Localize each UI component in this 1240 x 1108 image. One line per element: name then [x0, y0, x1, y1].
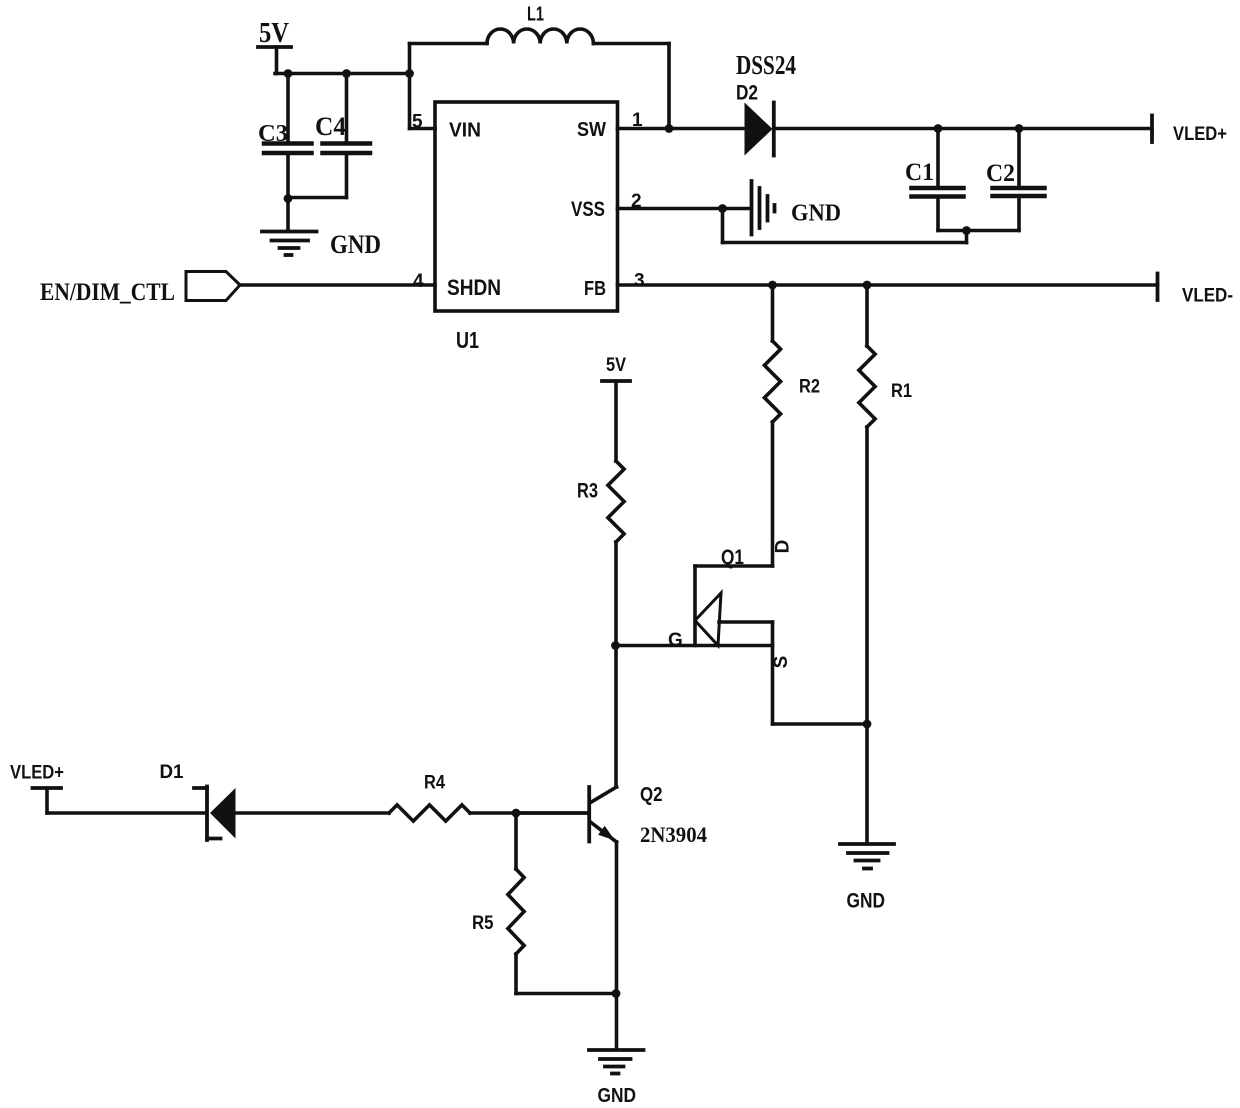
svg-text:GND: GND — [330, 230, 381, 259]
svg-text:D: D — [773, 540, 794, 554]
svg-text:C4: C4 — [315, 112, 346, 141]
svg-text:L1: L1 — [527, 4, 544, 26]
svg-text:3: 3 — [634, 271, 645, 292]
svg-text:SHDN: SHDN — [447, 275, 501, 300]
svg-text:D1: D1 — [160, 762, 184, 783]
svg-text:2N3904: 2N3904 — [640, 822, 707, 847]
svg-text:C2: C2 — [986, 160, 1015, 187]
svg-text:2: 2 — [631, 191, 642, 212]
svg-text:D2: D2 — [736, 82, 758, 105]
svg-text:S: S — [771, 656, 792, 669]
svg-text:5: 5 — [412, 112, 423, 133]
svg-text:4: 4 — [413, 271, 424, 292]
svg-text:R5: R5 — [472, 913, 494, 934]
svg-text:1: 1 — [632, 110, 643, 131]
svg-text:C3: C3 — [258, 121, 288, 147]
svg-text:R3: R3 — [577, 480, 598, 503]
svg-text:5V: 5V — [606, 355, 626, 376]
svg-text:SW: SW — [577, 119, 606, 141]
svg-text:C1: C1 — [905, 159, 934, 186]
svg-text:R4: R4 — [424, 773, 445, 794]
svg-text:R2: R2 — [799, 377, 820, 398]
svg-text:VLED-: VLED- — [1182, 286, 1233, 307]
svg-text:VLED+: VLED+ — [10, 763, 64, 784]
svg-text:Q1: Q1 — [721, 546, 744, 569]
svg-text:VLED+: VLED+ — [1173, 124, 1227, 145]
svg-text:GND: GND — [598, 1085, 637, 1103]
svg-text:5V: 5V — [259, 18, 289, 49]
svg-text:FB: FB — [584, 278, 606, 300]
svg-text:VIN: VIN — [449, 120, 481, 142]
svg-text:VSS: VSS — [571, 198, 605, 221]
svg-text:U1: U1 — [456, 327, 479, 353]
svg-text:R1: R1 — [891, 381, 912, 402]
svg-text:GND: GND — [847, 890, 886, 913]
svg-text:EN/DIM_CTL: EN/DIM_CTL — [40, 279, 175, 306]
svg-text:Q2: Q2 — [640, 784, 663, 806]
svg-text:G: G — [668, 630, 683, 651]
svg-text:GND: GND — [791, 201, 841, 227]
svg-text:DSS24: DSS24 — [736, 50, 796, 80]
